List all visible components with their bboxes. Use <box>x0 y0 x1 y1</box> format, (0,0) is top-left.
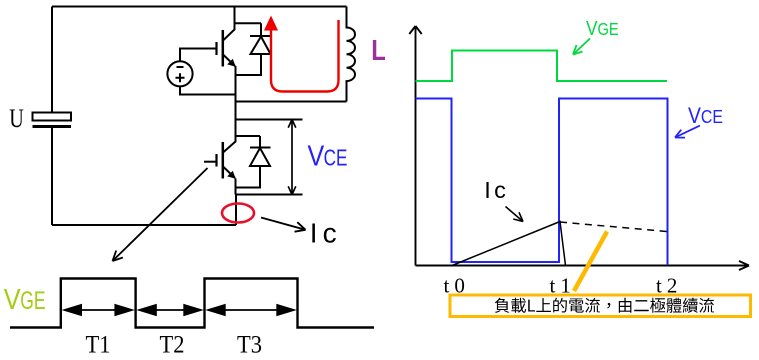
red ellipse Ic probe <box>222 204 254 223</box>
transistor Q2 collector <box>223 136 236 153</box>
diode D1 cathode lead <box>260 23 262 36</box>
transistor Q2 gate lead <box>204 161 217 163</box>
svg-text:T3: T3 <box>237 331 262 358</box>
VGE gate waveform <box>10 279 374 328</box>
diode D1 anode lead <box>236 54 262 75</box>
callout text 負載L上的電流，由二極體續流 <box>495 298 714 313</box>
diode D2 cathode bar <box>250 147 271 149</box>
svg-text:CE: CE <box>324 145 348 171</box>
transistor Q2 emitter <box>223 167 235 179</box>
wire mid bus to inductor <box>236 101 347 103</box>
transistor Q1 emitter arrowhead <box>227 59 236 67</box>
svg-text:U: U <box>9 104 24 133</box>
gate source V1 circle <box>167 61 192 86</box>
wire top bus <box>52 6 347 8</box>
red loop arrowhead <box>264 16 278 31</box>
wire diode D1 top jog <box>235 22 262 24</box>
orange callout box <box>450 295 751 317</box>
diode D2 triangle <box>250 148 270 166</box>
x axis <box>416 265 750 267</box>
wire source top lead <box>180 49 217 62</box>
gate source plus <box>176 73 185 82</box>
diode D2 anode lead <box>236 166 261 188</box>
VCE measure double arrow <box>288 120 296 195</box>
transistor Q1 body bar <box>222 30 225 67</box>
svg-text:V: V <box>4 282 21 315</box>
transistor Q1 collector <box>223 7 235 41</box>
T1 double arrow <box>62 304 297 316</box>
y axis <box>409 26 749 270</box>
svg-text:VGE: VGE <box>586 18 619 41</box>
wire emitter measure line <box>236 194 303 196</box>
arrow to Ic label <box>261 218 306 232</box>
Ic rising current line <box>452 222 566 266</box>
T2 double arrow <box>143 309 197 311</box>
wire mid vertical <box>235 66 237 136</box>
long diagonal arrow to waveform <box>113 168 208 261</box>
svg-text:T2: T2 <box>160 331 185 358</box>
inductor L coil <box>347 7 356 102</box>
svg-text:Ic: Ic <box>310 218 342 249</box>
svg-text:Ic: Ic <box>484 177 509 203</box>
transistor Q2 body bar <box>222 142 225 179</box>
gate source minus <box>177 66 184 68</box>
capacitor U top plate <box>33 113 72 121</box>
diode D1 cathode bar <box>250 35 272 37</box>
T3 double arrow <box>213 309 290 311</box>
wire left vertical lower <box>51 128 53 225</box>
Ic arrow right <box>506 207 524 222</box>
VCE waveform blue <box>416 99 668 266</box>
wire bottom bus <box>52 224 236 226</box>
wire collector measure line <box>236 119 303 121</box>
wire source bottom lead <box>180 87 236 95</box>
svg-text:T1: T1 <box>86 331 111 358</box>
capacitor U bottom plate <box>33 125 72 128</box>
svg-text:GE: GE <box>20 286 45 315</box>
transistor Q2 emitter arrowhead <box>227 171 236 179</box>
svg-text:VCE: VCE <box>688 104 723 129</box>
wire left vertical upper <box>51 7 53 114</box>
wire emitter vertical through ellipse <box>235 195 237 226</box>
blue arrow <box>675 126 700 138</box>
transistor Q1 gate bar <box>215 42 217 55</box>
wire Q2 emitter vertical <box>235 179 237 195</box>
VGE waveform green <box>416 51 668 82</box>
red freewheeling current loop <box>271 20 339 92</box>
diode D1 triangle <box>251 37 271 55</box>
transistor Q1 emitter <box>223 55 235 67</box>
wire diode D2 top jog <box>236 135 261 137</box>
green arrow <box>573 39 590 55</box>
svg-text:L: L <box>371 34 386 67</box>
diode D2 cathode lead <box>259 136 261 148</box>
Ic dashed freewheel line <box>560 222 667 232</box>
orange callout line <box>574 232 607 292</box>
svg-text:V: V <box>308 140 325 172</box>
transistor Q2 gate bar <box>215 154 217 167</box>
